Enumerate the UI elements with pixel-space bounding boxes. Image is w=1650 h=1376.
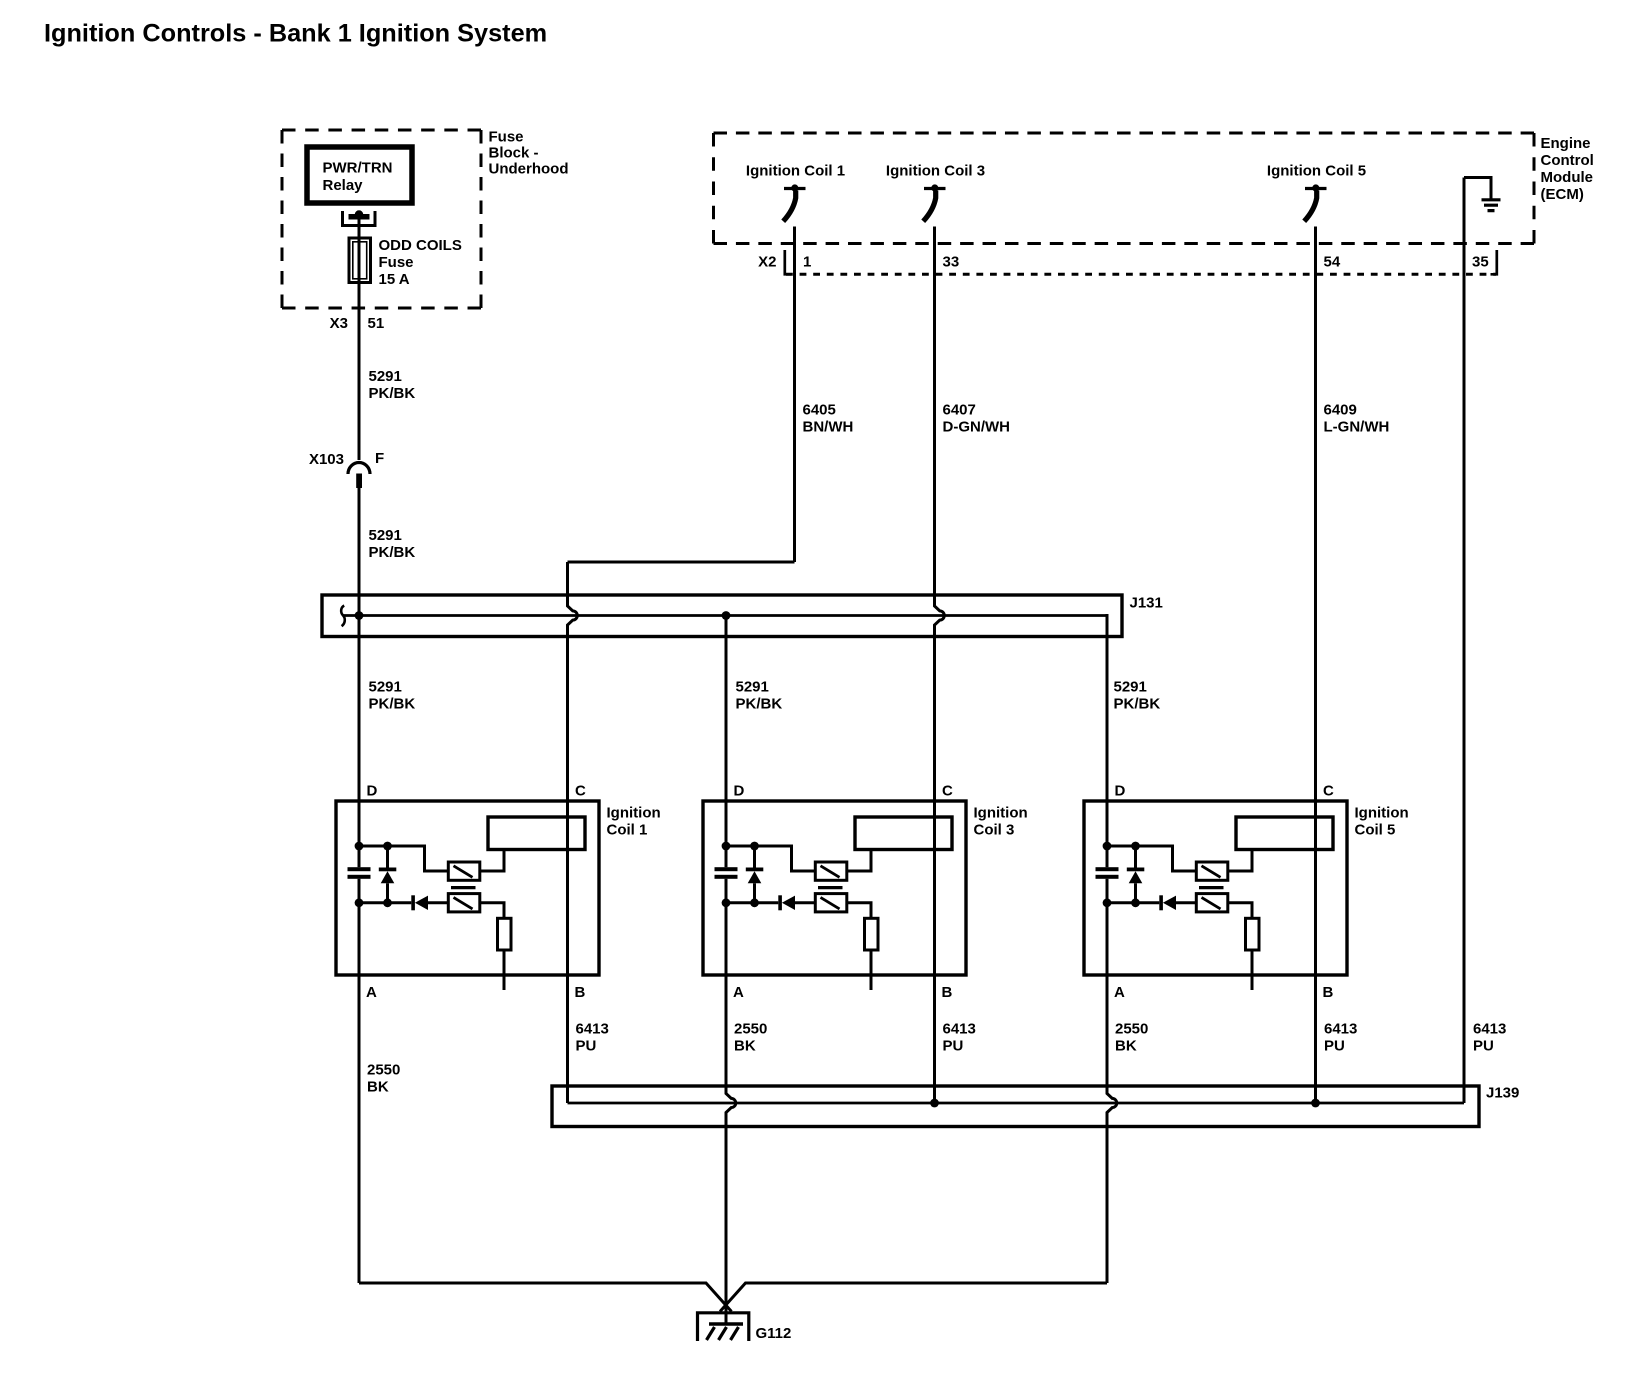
svg-text:33: 33 [943, 254, 960, 271]
svg-text:Block -: Block - [489, 144, 539, 161]
coil 5 capacitor [1096, 867, 1119, 871]
svg-text:PU: PU [943, 1038, 964, 1055]
svg-text:BK: BK [1115, 1038, 1137, 1055]
coil 5 zener diode [1134, 846, 1137, 903]
coil 1 zener diode [386, 846, 389, 903]
svg-text:PU: PU [576, 1038, 597, 1055]
svg-text:2550: 2550 [1115, 1021, 1148, 1038]
wire 5291 branch to coil3 D (gap at capacitor, hop at J139) [726, 616, 736, 1325]
junction dot J139 / coil5 B [1311, 1099, 1320, 1108]
svg-text:35: 35 [1472, 254, 1489, 271]
svg-text:Coil 1: Coil 1 [607, 822, 648, 839]
svg-text:51: 51 [368, 315, 385, 332]
connector X2 left bracket [785, 250, 791, 274]
coil 1 driver module upper [448, 862, 480, 880]
coil 1 wire driver to supply rail [359, 846, 448, 871]
svg-text:PU: PU [1473, 1038, 1494, 1055]
svg-text:Ignition Coil 3: Ignition Coil 3 [886, 163, 985, 180]
coil 3 wire driver to supply rail [726, 846, 815, 871]
svg-text:5291: 5291 [1114, 679, 1147, 696]
coil 3 driver coupling bar [818, 886, 843, 889]
svg-text:Coil 5: Coil 5 [1355, 822, 1396, 839]
coil 5 diode [1159, 895, 1163, 910]
coil 3 capacitor [715, 867, 738, 871]
J131 bus end curl [341, 606, 345, 627]
svg-text:D: D [734, 783, 745, 800]
coil 3 winding tap wire [847, 850, 871, 872]
coil 3 driver module lower [815, 894, 847, 912]
svg-text:L-GN/WH: L-GN/WH [1324, 419, 1390, 436]
svg-text:Underhood: Underhood [489, 161, 569, 178]
svg-text:PU: PU [1324, 1038, 1345, 1055]
svg-text:A: A [733, 984, 744, 1001]
svg-text:6405: 6405 [803, 402, 836, 419]
coil 1 wire driver to resistor [480, 903, 504, 919]
svg-text:C: C [942, 783, 953, 800]
coil 5 driver module lower [1196, 894, 1228, 912]
coil 1 junction dots [355, 842, 364, 851]
coil 5 secondary stub [1251, 950, 1254, 990]
svg-text:6413: 6413 [1473, 1021, 1506, 1038]
svg-text:Module: Module [1541, 169, 1594, 186]
svg-text:Relay: Relay [323, 177, 364, 194]
svg-text:15 A: 15 A [379, 271, 410, 288]
svg-text:PWR/TRN: PWR/TRN [323, 160, 393, 177]
coil 3 diode [778, 895, 782, 910]
junction dot J131 / 5291 feed [355, 611, 364, 620]
svg-text:A: A [1114, 984, 1125, 1001]
svg-text:1: 1 [803, 254, 811, 271]
ECM internal ground lead [1464, 178, 1491, 199]
svg-text:2550: 2550 [734, 1021, 767, 1038]
svg-text:2550: 2550 [367, 1062, 400, 1079]
inline connector X103 terminal F (female half) [348, 463, 370, 475]
svg-text:ODD COILS: ODD COILS [379, 237, 462, 254]
coil 1 winding tap wire [480, 850, 504, 872]
svg-text:Fuse: Fuse [489, 128, 524, 145]
svg-text:Ignition: Ignition [974, 805, 1028, 822]
svg-text:Ignition: Ignition [1355, 805, 1409, 822]
svg-text:6413: 6413 [576, 1021, 609, 1038]
relay output terminal (male blade) [349, 214, 370, 220]
coil 3 secondary stub [870, 950, 873, 990]
svg-text:B: B [575, 984, 586, 1001]
svg-text:5291: 5291 [736, 679, 769, 696]
splice pack J139 [552, 1086, 1479, 1127]
connector X2 right bracket [1491, 250, 1497, 274]
wire from ECM pin 1 [793, 227, 796, 563]
svg-text:(ECM): (ECM) [1541, 186, 1584, 203]
wire 6409 from ECM pin 54 to coil5 C and J139 [1314, 227, 1317, 1104]
relay output terminal (female cup) [341, 211, 377, 227]
coil 5 wire driver to supply rail [1107, 846, 1196, 871]
coil 3 zener diode [753, 846, 756, 903]
svg-text:D: D [1115, 783, 1126, 800]
svg-text:J139: J139 [1486, 1085, 1519, 1102]
coil 3 driver module upper [815, 862, 847, 880]
wire 5291 branch to coil5 D (gap at capacitor, hop at J139) [1107, 614, 1117, 1283]
svg-text:5291: 5291 [369, 527, 402, 544]
wire jog to coil 1 column [568, 561, 795, 564]
PWR/TRN relay [307, 147, 412, 203]
svg-text:Engine: Engine [1541, 135, 1591, 152]
svg-text:Fuse: Fuse [379, 254, 414, 271]
svg-text:X2: X2 [758, 254, 776, 271]
svg-text:PK/BK: PK/BK [369, 385, 416, 402]
coil 1 secondary stub [503, 950, 506, 990]
svg-text:BN/WH: BN/WH [803, 419, 854, 436]
svg-text:X3: X3 [330, 315, 348, 332]
coil 5 driver coupling bar [1199, 886, 1224, 889]
svg-text:6409: 6409 [1324, 402, 1357, 419]
svg-text:54: 54 [1324, 254, 1341, 271]
svg-text:PK/BK: PK/BK [369, 696, 416, 713]
wire relay to fuse [358, 219, 361, 460]
engine control module (dashed enclosure) [714, 132, 1535, 135]
ground G112 symbol [698, 1313, 749, 1341]
coil 1 capacitor [348, 867, 371, 871]
coil 1 resistor [498, 918, 512, 950]
svg-text:C: C [1323, 783, 1334, 800]
coil 1 driver module lower [448, 894, 480, 912]
wire 6413 from ECM pin 35 ground to J139 [1463, 178, 1466, 1104]
svg-text:D-GN/WH: D-GN/WH [943, 419, 1011, 436]
svg-text:5291: 5291 [369, 679, 402, 696]
wire 2550 right ground run [720, 1283, 1107, 1312]
svg-text:A: A [366, 984, 377, 1001]
coil 5 primary winding [1236, 817, 1333, 850]
coil 5 winding tap wire [1228, 850, 1252, 872]
junction dot J131 / coil3 D branch [722, 611, 731, 620]
ignition coil 1 box [336, 801, 599, 975]
svg-text:B: B [1323, 984, 1334, 1001]
svg-text:Coil 3: Coil 3 [974, 822, 1015, 839]
inline connector X103 (male half) [356, 474, 362, 489]
coil 5 driver module upper [1196, 862, 1228, 880]
svg-text:Ignition Coil 5: Ignition Coil 5 [1267, 163, 1366, 180]
wire 6405 down through J131 (hop) to coil1 C and on to J139 [568, 562, 578, 1103]
coil 3 primary winding [855, 817, 952, 850]
coil 5 resistor [1246, 918, 1260, 950]
coil 1 primary winding [488, 817, 585, 850]
svg-text:PK/BK: PK/BK [736, 696, 783, 713]
wire 6407 from ECM pin 33 through J131 (hop) to coil3 C and J139 [935, 227, 945, 1104]
J139 internal bus wire [568, 1102, 1465, 1105]
svg-text:PK/BK: PK/BK [369, 544, 416, 561]
J131 internal bus wire [343, 614, 1108, 617]
ODD COILS fuse 15 A [349, 238, 371, 283]
wire 2550 left ground run [359, 1283, 732, 1312]
svg-text:B: B [942, 984, 953, 1001]
svg-text:Ignition: Ignition [607, 805, 661, 822]
svg-text:D: D [367, 783, 378, 800]
svg-text:C: C [575, 783, 586, 800]
coil 3 lower rail [726, 901, 815, 904]
junction dot J139 / coil3 B [930, 1099, 939, 1108]
coil 5 junction dots [1103, 842, 1112, 851]
coil 1 diode [411, 895, 415, 910]
ignition coil 5 box [1084, 801, 1347, 975]
svg-text:Control: Control [1541, 152, 1594, 169]
svg-text:5291: 5291 [369, 368, 402, 385]
fuse block - underhood (dashed enclosure) [282, 129, 481, 132]
ECM internal ground symbol [1482, 200, 1501, 211]
svg-text:BK: BK [367, 1079, 389, 1096]
ignition coil 3 box [703, 801, 966, 975]
wire 5291 from X103 to splice J131 and ignition coil 1 terminal D (gap at coil capacitor) [358, 488, 361, 1283]
svg-text:6413: 6413 [943, 1021, 976, 1038]
svg-text:G112: G112 [756, 1325, 792, 1342]
svg-text:Ignition Controls - Bank 1 Ign: Ignition Controls - Bank 1 Ignition Syst… [44, 20, 547, 48]
splice pack J131 [322, 595, 1122, 637]
coil 3 junction dots [722, 842, 731, 851]
svg-text:J131: J131 [1130, 595, 1163, 612]
svg-text:6407: 6407 [943, 402, 976, 419]
coil 1 driver coupling bar [451, 886, 476, 889]
svg-text:Ignition Coil 1: Ignition Coil 1 [746, 163, 845, 180]
coil 3 wire driver to resistor [847, 903, 871, 919]
coil 5 wire driver to resistor [1228, 903, 1252, 919]
svg-text:X103: X103 [309, 451, 344, 468]
svg-text:PK/BK: PK/BK [1114, 696, 1161, 713]
svg-text:F: F [375, 450, 384, 467]
connector X2 dotted line [786, 273, 1496, 276]
coil 1 lower rail [359, 901, 448, 904]
junction dot on relay terminal [355, 210, 363, 218]
coil 5 lower rail [1107, 901, 1196, 904]
svg-text:BK: BK [734, 1038, 756, 1055]
coil 3 resistor [865, 918, 879, 950]
svg-text:6413: 6413 [1324, 1021, 1357, 1038]
